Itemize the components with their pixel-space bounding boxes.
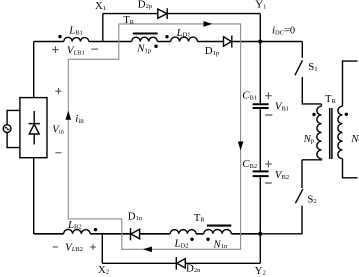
- wire top main rail: [34, 41, 261, 43]
- diode D2n: [177, 259, 186, 268]
- rectifier bridge box: [20, 98, 47, 158]
- svg-text:VB2: VB2: [275, 169, 289, 181]
- inductor LD1: [171, 37, 198, 41]
- diode D1p: [224, 37, 232, 47]
- switch S1 blade: [295, 60, 303, 75]
- plus CB2: [265, 161, 272, 168]
- minus CB1: [265, 114, 272, 116]
- svg-text:Vin: Vin: [52, 124, 64, 136]
- svg-text:TR: TR: [194, 212, 206, 224]
- svg-text:Y1: Y1: [255, 0, 266, 11]
- wire left vertical rectifier to bottom rail: [33, 158, 35, 234]
- core bar of N1p: [133, 33, 158, 35]
- wire S1 to Np: [302, 77, 321, 106]
- diode D2p: [158, 9, 167, 18]
- svg-text:N1p: N1p: [136, 43, 151, 55]
- svg-text:D1p: D1p: [205, 45, 219, 57]
- svg-text:VLB1: VLB1: [67, 45, 85, 57]
- dot LD2: [190, 238, 193, 241]
- svg-text:VLB2: VLB2: [65, 241, 83, 253]
- transformer primary Np: [317, 106, 322, 159]
- wire S2 to bottom junction: [260, 206, 302, 234]
- svg-text:D2p: D2p: [138, 0, 152, 10]
- switch S2 blade: [295, 189, 303, 203]
- svg-text:S1: S1: [308, 61, 317, 73]
- svg-text:LB2: LB2: [67, 219, 82, 231]
- inductor LB2: [64, 229, 91, 233]
- inductor LB1: [64, 37, 89, 41]
- svg-text:TR: TR: [325, 93, 337, 105]
- minus VLB1: [91, 48, 98, 50]
- capacitor CB2: [253, 171, 269, 176]
- transformer core: [330, 108, 332, 159]
- wire iDC to S1: [260, 42, 302, 59]
- coupled winding N1n: [204, 229, 232, 233]
- ac source: [3, 125, 11, 133]
- dot N1p: [154, 45, 157, 48]
- svg-text:LB1: LB1: [68, 25, 83, 37]
- diode inside rectifier: [33, 111, 35, 145]
- wire Y vertical with capacitors: [259, 42, 261, 234]
- wire bottom D2n rail: [102, 234, 260, 263]
- svg-text:Y2: Y2: [255, 265, 266, 277]
- wire Ns bottom lead: [343, 159, 358, 178]
- coupled winding N1p: [132, 37, 158, 41]
- svg-text:N1n: N1n: [213, 238, 228, 250]
- svg-text:X2: X2: [98, 264, 109, 276]
- arrow left on loop bottom: [143, 247, 152, 253]
- dot Np: [312, 113, 315, 116]
- dot LB2: [94, 228, 97, 231]
- junction node Y2-rail: [258, 232, 262, 236]
- svg-text:LD2: LD2: [174, 238, 189, 250]
- capacitor CB1: [253, 104, 269, 108]
- svg-text:LD1: LD1: [176, 27, 191, 39]
- svg-text:CB1: CB1: [242, 90, 257, 102]
- wire X2 vertical: [101, 234, 103, 263]
- dot N1n: [206, 238, 209, 241]
- minus Vin: [55, 152, 61, 154]
- dot Ns: [345, 113, 348, 116]
- dot LD1: [165, 35, 168, 38]
- diode D1n: [131, 229, 140, 239]
- dot LB1: [58, 35, 61, 38]
- inductor LD2: [170, 230, 196, 234]
- svg-text:Np: Np: [303, 133, 314, 145]
- arrow down on loop right: [238, 142, 244, 151]
- svg-text:D1n: D1n: [128, 210, 143, 222]
- transformer secondary Ns: [338, 106, 343, 159]
- plus VLB1: [52, 46, 272, 250]
- arrow right on loop top: [204, 21, 213, 27]
- svg-text:Ns: Ns: [350, 133, 359, 145]
- svg-text:X1: X1: [95, 0, 106, 12]
- arrow up iin on loop left: [66, 111, 72, 120]
- core bar of N1n: [207, 225, 231, 227]
- wire top D2p rail: [103, 14, 260, 42]
- svg-text:TR: TR: [123, 14, 135, 26]
- svg-text:iin: iin: [75, 113, 84, 125]
- wire ac to rectifier top: [7, 110, 20, 124]
- wire left vertical from top rail to rectifier: [33, 42, 35, 98]
- svg-text:iDC=0: iDC=0: [272, 25, 295, 37]
- wire Ns top lead: [343, 61, 358, 106]
- svg-text:VB1: VB1: [275, 101, 289, 113]
- wire X1 vertical: [102, 14, 104, 42]
- wire Np bottom to S2: [302, 159, 322, 188]
- current loop gray path: [68, 24, 240, 249]
- wire bottom main rail: [34, 233, 261, 235]
- minus VLB2: [53, 246, 58, 248]
- minus CB2: [265, 182, 272, 184]
- plus Vin: [55, 88, 61, 94]
- svg-text:S2: S2: [307, 193, 316, 205]
- junction node Y1-rail: [258, 39, 262, 43]
- plus CB1: [265, 92, 272, 99]
- svg-text:CB2: CB2: [242, 158, 257, 170]
- plus VLB2: [90, 244, 96, 250]
- svg-text:D2n: D2n: [186, 262, 201, 274]
- wire ac to rectifier bottom: [7, 133, 20, 148]
